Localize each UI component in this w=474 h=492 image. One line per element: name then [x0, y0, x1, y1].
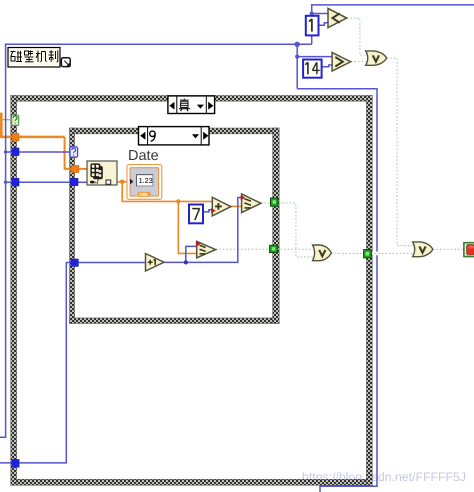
- outer case selector terminal ?: [12, 115, 19, 125]
- junction dot orange 1: [120, 180, 125, 185]
- wire green gt output to or1: [351, 61, 366, 63]
- case structure outer (true case) border: [11, 96, 373, 486]
- wire blue to lt upper input: [312, 13, 329, 15]
- tunnel green inner right 1: [271, 198, 279, 206]
- node greater-than: [332, 53, 351, 72]
- svg-text:Date: Date: [128, 148, 159, 164]
- wire orange branch down to geq2: [178, 201, 197, 253]
- gate or right: [413, 242, 433, 257]
- svg-text:DBL: DBL: [139, 192, 149, 197]
- tunnel blue inner: [70, 178, 78, 185]
- glyph zhi: [49, 50, 58, 62]
- wire orange down to inner tunnel: [65, 137, 87, 169]
- wire blue const14 to gt lower input: [322, 65, 333, 67]
- wire green or1 output long down to or3: [387, 58, 413, 245]
- node less-than: [328, 8, 347, 27]
- glyph ji: [36, 51, 47, 63]
- boolean indicator LED: [464, 243, 474, 257]
- tunnel green outer right: [364, 250, 372, 258]
- wire blue stub to inner selector: [6, 151, 71, 153]
- gate or top: [366, 51, 387, 65]
- inner case selector terminal ?: [70, 147, 78, 157]
- wire blue long right loop: [297, 89, 377, 492]
- coercion dot geq2 upper: [196, 241, 200, 246]
- case structure inner (case 9) border: [70, 128, 280, 324]
- wire green or2 output through big tunnel to or3: [331, 252, 413, 256]
- junction dot blue mid1: [295, 42, 300, 47]
- wire blue const1 to lt lower input: [319, 23, 329, 26]
- wire green geq1 output to or2: [261, 203, 313, 257]
- node add: [212, 197, 231, 216]
- svg-text:1.23: 1.23: [139, 176, 153, 185]
- tunnel blue outer bottom: [12, 460, 19, 468]
- wire orange icon output to Date indicator: [117, 181, 129, 183]
- wire green from geq2 to tunnel to OR: [216, 248, 313, 250]
- tunnel blue outer 1: [12, 148, 19, 156]
- tunnel orange outer: [12, 134, 19, 142]
- coercion dot plus lower: [211, 208, 215, 213]
- tunnel blue inner bottom: [71, 259, 78, 266]
- wire blue top long: [312, 5, 474, 16]
- node greater-or-equal 1: [242, 194, 261, 213]
- junction dot orange 2: [176, 199, 180, 203]
- numeric constant 14: [303, 60, 322, 78]
- glyph bi: [25, 51, 34, 62]
- wire blue branch to geq2 upper: [186, 246, 197, 262]
- glyph true (zhen) hand drawn: [179, 99, 190, 112]
- wire green or3 output to LED: [433, 248, 464, 250]
- gate or mid: [313, 245, 332, 261]
- wire blue to gt upper input: [297, 56, 332, 58]
- wire orange plus output: [231, 205, 242, 207]
- glyph peng: [11, 51, 23, 62]
- junction dot blue mid2: [295, 55, 299, 59]
- wire green boolean to outer selector: [0, 119, 12, 121]
- wire blue inc output to geq1 upper: [164, 198, 242, 263]
- wire blue left vertical: [0, 44, 6, 437]
- indicator Date with DBL cluster frame: [127, 148, 162, 200]
- icon date-time converter: [87, 161, 117, 186]
- numeric constant 7: [189, 205, 203, 224]
- junction dot blue left2: [4, 181, 7, 184]
- wire blue stub to icon: [6, 181, 87, 183]
- tunnel green inner right 2: [270, 245, 278, 252]
- wire green lt output to or1: [347, 18, 366, 55]
- wire blue long horizontal top-left: [5, 43, 312, 45]
- wire blue bottom left loop through tunnels: [0, 263, 146, 463]
- junction dot blue inner: [184, 260, 188, 264]
- label box peng bi ji zhi: [8, 48, 60, 68]
- selector label true (outer): [168, 96, 215, 114]
- numeric constant 1: [306, 16, 319, 36]
- coercion dot geq1 upper: [241, 195, 245, 200]
- cursor resize icon: [61, 58, 70, 67]
- node greater-or-equal 2: [197, 241, 216, 257]
- tunnel blue outer 2: [12, 178, 19, 186]
- tunnel orange inner: [71, 165, 79, 172]
- wire blue const7 to plus lower: [203, 210, 213, 212]
- junction dot blue left1: [4, 150, 7, 153]
- wire orange array entry: [0, 113, 3, 138]
- wire blue const1 down to long horizontal: [311, 35, 313, 44]
- wire orange branch down right to plus node: [122, 182, 212, 202]
- junction dot blue top: [310, 12, 314, 16]
- node increment: [146, 254, 165, 272]
- wire blue right drop from dot: [296, 44, 298, 89]
- selector label 9 (inner): [139, 127, 210, 145]
